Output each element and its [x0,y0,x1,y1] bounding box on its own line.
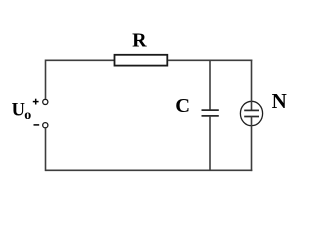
resistor R [115,55,168,66]
neon lamp N: top lead [251,60,253,111]
wire: left vertical lower segment [45,128,47,171]
svg-text:U: U [12,101,25,121]
svg-text:N: N [272,89,287,113]
wire: left vertical upper segment [45,60,47,99]
minus sign [34,124,40,126]
neon lamp N: bottom lead [251,117,253,172]
wire: capacitor branch upper lead [209,60,211,110]
svg-text:C: C [175,95,190,117]
terminal: plus (open circle) [43,99,48,104]
neon lamp N: bottom electrode [244,116,259,118]
neon lamp N: circle [240,101,262,125]
capacitor C: top plate [202,109,219,111]
wire: capacitor branch lower lead [209,116,211,170]
plus sign [33,101,39,103]
wire: top horizontal, source to resistor [46,59,115,61]
terminal: minus (open circle) [43,123,48,128]
svg-text:o: o [24,108,31,123]
wire: top horizontal, resistor to right branch [168,59,252,61]
neon lamp N: top electrode [244,109,259,111]
capacitor C: bottom plate [202,115,219,117]
svg-text:R: R [132,30,147,52]
wire: bottom horizontal [46,169,253,171]
